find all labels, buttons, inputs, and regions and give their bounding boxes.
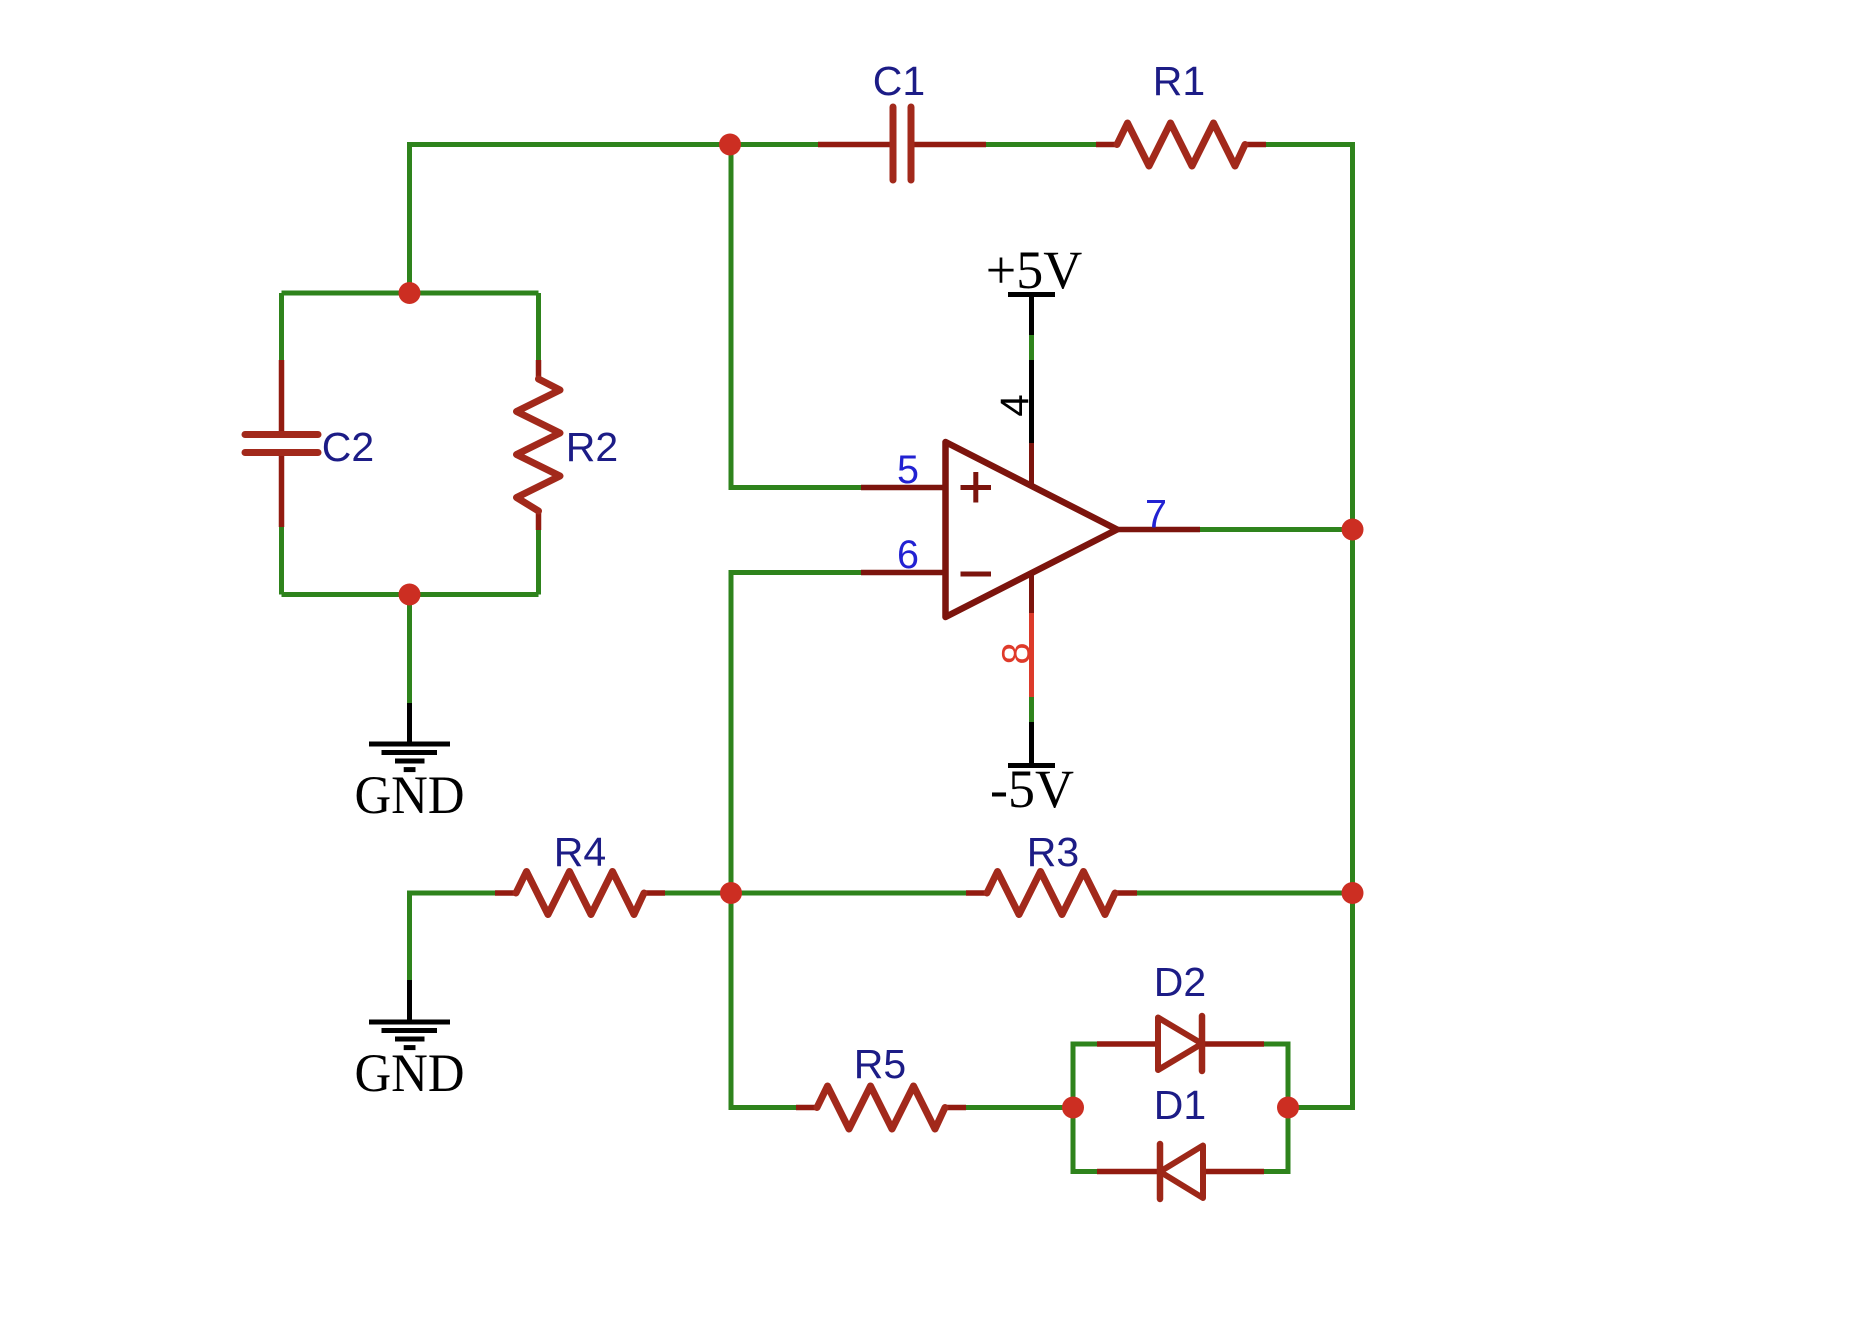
ground GND2 <box>355 980 465 1103</box>
svg-text:D2: D2 <box>1154 959 1206 1005</box>
wire R2 branch bottom <box>536 527 541 595</box>
junction top rail <box>719 134 741 156</box>
resistor R5 <box>796 1041 966 1129</box>
wire right rail mid <box>1350 530 1355 894</box>
wire diode box left vertical <box>1071 1044 1076 1172</box>
svg-text:-5V: -5V <box>990 759 1074 819</box>
capacitor C2 <box>245 360 374 527</box>
capacitor C1 <box>818 58 986 180</box>
svg-text:+5V: +5V <box>986 240 1082 300</box>
wire R5 to diode box <box>966 1105 1073 1110</box>
wire mid vertical to R5 row <box>731 893 796 1108</box>
wire diode box right vertical <box>1286 1044 1291 1172</box>
pin number 7 <box>1145 493 1167 537</box>
wire top rail mid segment <box>986 142 1096 147</box>
resistor R1 <box>1096 58 1266 166</box>
pin number 6 <box>897 533 919 577</box>
junction R3 rail <box>1342 882 1364 904</box>
ground GND1 <box>355 703 465 825</box>
diode D2 <box>1097 959 1264 1071</box>
junction diode box right <box>1277 1097 1299 1119</box>
power +5V <box>986 240 1082 335</box>
wire C2R2 box top <box>282 291 539 296</box>
wire pin6 branch <box>731 573 861 894</box>
wire C2 branch bottom <box>279 527 284 595</box>
wire R2 branch top <box>536 293 541 360</box>
svg-text:D1: D1 <box>1154 1082 1206 1128</box>
wire pin5 branch <box>731 145 861 488</box>
svg-text:R5: R5 <box>854 1041 906 1087</box>
junction C2R2 top <box>399 282 421 304</box>
wire R4 row left <box>410 893 496 980</box>
wire C2R2 box bottom <box>282 592 539 597</box>
wire D1 row right <box>1264 1169 1291 1174</box>
wire D2 row left <box>1071 1042 1098 1047</box>
wire C2 branch top <box>279 293 284 360</box>
junction output rail <box>1342 519 1364 541</box>
svg-text:R4: R4 <box>554 829 606 875</box>
resistor R4 <box>495 829 665 915</box>
pin number 5 <box>897 448 919 492</box>
wire top rail left segment <box>410 145 819 294</box>
wire junction to R3 <box>731 891 966 896</box>
wire D2 row right <box>1264 1042 1291 1047</box>
svg-text:R1: R1 <box>1153 58 1205 104</box>
svg-text:8: 8 <box>995 642 1039 664</box>
diode D1 <box>1097 1082 1264 1199</box>
wire R3 to right rail <box>1137 891 1353 896</box>
wire D1 row left <box>1071 1169 1098 1174</box>
wire R4 to junction <box>665 891 731 896</box>
pin number 4 <box>993 394 1037 416</box>
svg-text:6: 6 <box>897 533 919 577</box>
junction diode box left <box>1062 1097 1084 1119</box>
resistor R2 <box>517 360 619 530</box>
svg-text:R3: R3 <box>1027 829 1079 875</box>
op-amp U1 <box>861 360 1200 697</box>
svg-text:4: 4 <box>993 394 1037 416</box>
pin number 8 <box>995 642 1039 664</box>
wire GND1 stub <box>407 595 412 704</box>
wire right rail bottom <box>1288 893 1353 1108</box>
wire pin4 net <box>1029 335 1034 360</box>
junction R4 R3 <box>720 882 742 904</box>
svg-text:5: 5 <box>897 448 919 492</box>
svg-text:GND: GND <box>355 765 465 825</box>
svg-text:GND: GND <box>355 1043 465 1103</box>
wire top rail right segment <box>1264 145 1353 532</box>
svg-text:C2: C2 <box>322 424 374 470</box>
svg-text:C1: C1 <box>873 58 925 104</box>
resistor R3 <box>966 829 1137 915</box>
junction C2R2 bottom <box>399 584 421 606</box>
svg-text:R2: R2 <box>566 424 618 470</box>
power -5V <box>990 722 1074 819</box>
wire output to right rail <box>1200 527 1353 532</box>
svg-text:7: 7 <box>1145 493 1167 537</box>
wire pin8 net <box>1029 697 1034 722</box>
